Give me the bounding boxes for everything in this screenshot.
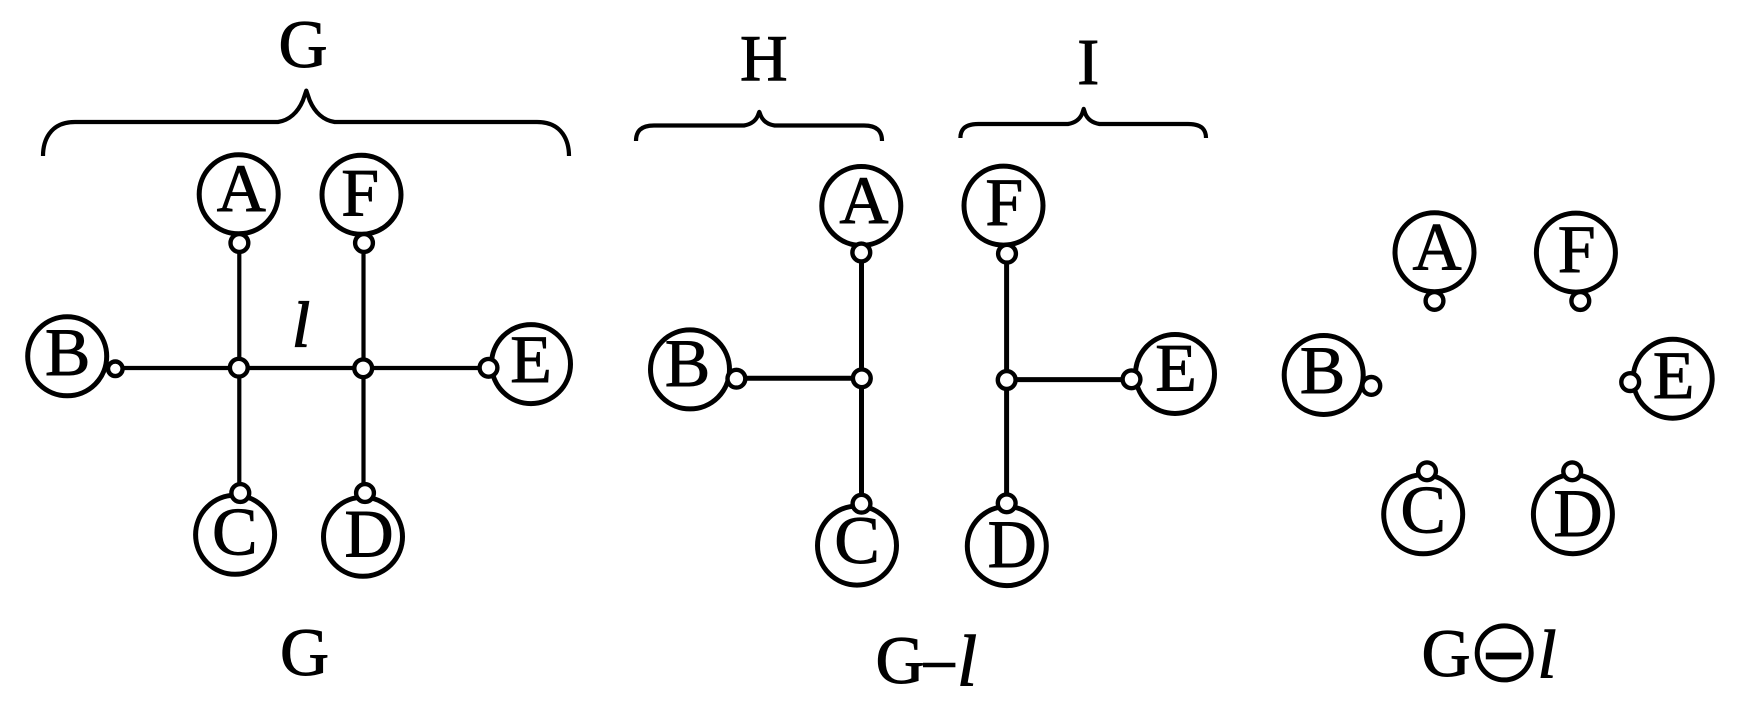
vertex F <box>322 155 401 235</box>
svg-text:I: I <box>1077 26 1099 99</box>
svg-text:G: G <box>875 622 924 698</box>
vertex D <box>324 496 403 577</box>
svg-text:C: C <box>1401 472 1446 548</box>
pin above C <box>1418 462 1436 480</box>
vertex F <box>1536 211 1615 292</box>
vertex D <box>1533 475 1612 554</box>
vertex B (H) <box>651 325 730 409</box>
vertex A <box>1395 209 1474 292</box>
pin below F <box>1571 292 1589 310</box>
vertex A (H) <box>822 162 901 246</box>
vertex C (H) <box>818 502 897 585</box>
pin above D (I) <box>998 494 1016 512</box>
vertex B <box>1284 332 1363 414</box>
vertex C <box>196 494 275 575</box>
pin above C (H) <box>853 495 871 513</box>
pin below F (I) <box>998 245 1016 263</box>
svg-text:D: D <box>1553 475 1602 551</box>
svg-text:B: B <box>45 314 90 390</box>
pin left of E (I) <box>1123 370 1141 388</box>
svg-text:B: B <box>665 325 710 401</box>
brace over G <box>43 91 569 156</box>
svg-text:D: D <box>988 506 1037 582</box>
junction node (H) <box>853 369 871 387</box>
wire A-C vertical (H) <box>859 253 864 504</box>
svg-text:l: l <box>957 621 977 702</box>
brace over H <box>636 112 882 141</box>
junction node 1 <box>230 359 248 377</box>
junction node (I) <box>998 371 1016 389</box>
vertex E <box>492 321 571 404</box>
pin right of B <box>108 362 123 377</box>
pin below A <box>1426 292 1444 310</box>
svg-text:A: A <box>839 162 888 238</box>
pin left of E <box>480 359 498 377</box>
svg-text:G: G <box>278 6 327 82</box>
svg-text:E: E <box>1653 337 1695 413</box>
vertex F (I) <box>964 164 1043 245</box>
pin right of B (H) <box>728 370 746 388</box>
wire F-D vertical (I) <box>1004 255 1009 503</box>
wire B-E horizontal (includes edge l) <box>115 366 488 370</box>
pin above D <box>356 484 374 502</box>
pin below A (H) <box>852 244 870 262</box>
svg-text:H: H <box>740 22 788 95</box>
svg-text:B: B <box>1300 332 1345 408</box>
brace over I <box>960 109 1206 138</box>
wire F-D vertical <box>361 243 365 493</box>
pin above D <box>1563 462 1581 480</box>
wire B-junction horizontal (H) <box>736 376 862 381</box>
wire junction-E horizontal (I) <box>1007 377 1132 382</box>
junction node 2 <box>354 359 372 377</box>
caption G minus-circle l <box>1421 615 1556 693</box>
pin above C <box>231 484 249 502</box>
svg-text:F: F <box>1558 211 1596 287</box>
vertex A <box>199 150 278 234</box>
svg-text:l: l <box>1537 617 1556 693</box>
pin below A <box>231 234 249 252</box>
svg-text:A: A <box>217 150 266 226</box>
pin below F <box>355 234 373 252</box>
svg-text:E: E <box>1155 330 1197 406</box>
svg-text:E: E <box>510 321 552 397</box>
svg-text:l: l <box>292 290 310 362</box>
vertex E (I) <box>1136 330 1215 414</box>
wire A-C vertical <box>237 243 241 493</box>
vertex C <box>1384 472 1463 554</box>
svg-text:F: F <box>341 155 379 231</box>
vertex B <box>28 314 107 396</box>
caption G-l <box>875 621 977 702</box>
svg-text:F: F <box>985 164 1023 240</box>
svg-text:A: A <box>1413 209 1462 285</box>
svg-text:G: G <box>280 614 329 690</box>
vertex E <box>1633 337 1712 418</box>
pin right of B <box>1362 377 1380 395</box>
vertex D (I) <box>967 506 1046 586</box>
svg-text:G: G <box>1421 615 1470 691</box>
svg-text:C: C <box>212 494 257 570</box>
pin left of E <box>1621 373 1639 391</box>
svg-text:D: D <box>344 496 393 572</box>
